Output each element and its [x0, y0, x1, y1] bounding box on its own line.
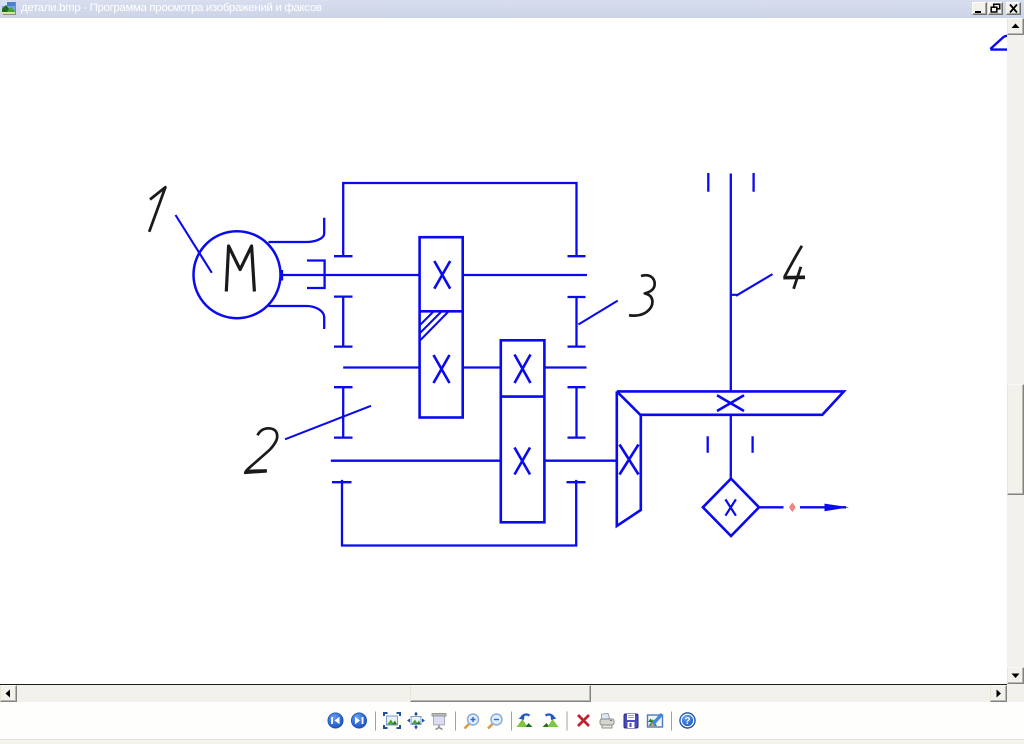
- svg-text:?: ?: [684, 716, 690, 727]
